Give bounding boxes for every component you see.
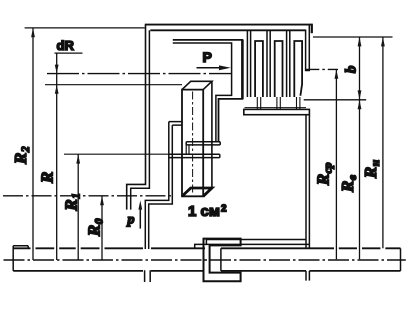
casing left wall outer <box>127 25 146 210</box>
RH dimension line <box>382 37 384 248</box>
rotor blade 1 <box>255 41 263 97</box>
disc right edge inner <box>305 115 307 248</box>
left shaft end cap <box>12 246 14 271</box>
web Z mirror stubs below shaft <box>145 270 151 282</box>
1 cm2 column box: front face <box>182 90 203 197</box>
web ladder rung top (stub) <box>169 122 182 126</box>
casing left wall inner <box>131 30 150 209</box>
rim plate <box>244 109 310 114</box>
right shaft top line <box>221 247 401 249</box>
R dimension line with dR arrows <box>56 53 58 260</box>
b + RB dimension line <box>359 37 361 259</box>
casing right wall inner line <box>305 30 307 70</box>
R1 dimension line <box>77 154 79 260</box>
box right back edge <box>211 81 213 188</box>
svg-text:Rн: Rн <box>361 159 382 179</box>
R0 dimension line <box>101 196 103 260</box>
svg-text:P: P <box>203 49 212 65</box>
R1 reference line <box>64 153 169 155</box>
disc bottom profile inner <box>206 240 306 245</box>
casing right wall bottom cap <box>305 70 310 72</box>
stator fin 3 <box>287 30 290 97</box>
force P arrow <box>197 67 223 69</box>
svg-text:R0: R0 <box>85 218 106 237</box>
inner box (P chamber) inner wall <box>173 43 232 142</box>
svg-text:p: p <box>127 213 135 228</box>
RB reference line <box>304 99 367 101</box>
inner box (P chamber) outer wall <box>173 40 243 142</box>
left shaft collar <box>13 246 28 249</box>
flange bar1 <box>186 142 220 145</box>
sleeve coupling <box>204 239 241 282</box>
web Z profile inner <box>149 125 173 249</box>
disc bottom profile outer <box>195 244 310 248</box>
pressure p arrow <box>139 208 141 229</box>
p level dash-dot line <box>3 195 174 197</box>
casing top right end tab <box>311 24 313 33</box>
axis of rotation (dash-dot) <box>4 259 406 261</box>
svg-text:Rв: Rв <box>338 175 359 193</box>
stator fin 1 <box>247 30 250 97</box>
blade stem 1 <box>257 97 260 109</box>
svg-text:1 см2: 1 см2 <box>188 203 227 220</box>
dR leader shelf <box>55 52 83 54</box>
blade stem 3 <box>297 97 300 109</box>
left shaft top line <box>13 247 205 249</box>
svg-text:R: R <box>38 172 57 184</box>
box center dash-dot axis <box>192 92 194 196</box>
svg-text:Rср: Rср <box>314 162 335 186</box>
disc right edge outer <box>308 115 310 248</box>
box bottom face edges <box>182 188 212 196</box>
web Z profile outer <box>145 122 169 249</box>
svg-text:b: b <box>344 65 360 73</box>
bar1-bar2 connector <box>186 145 189 154</box>
right shaft left end cap <box>220 248 222 271</box>
flange bar2 <box>169 154 220 157</box>
casing top outer line <box>145 24 313 26</box>
blade channel left wall (double) <box>241 40 244 99</box>
R2 dimension line <box>32 28 34 260</box>
disc right edge mirror stubs below shaft <box>306 271 309 281</box>
casing top inner line <box>150 29 306 31</box>
blade stem 2 <box>277 97 280 109</box>
svg-text:R2: R2 <box>11 146 32 165</box>
RH reference line <box>313 36 393 38</box>
stator fin 2 <box>267 30 270 97</box>
Rcp dimension line <box>335 69 337 259</box>
Rcp level dash-dot line <box>305 68 338 70</box>
left shaft bottom line <box>13 270 204 272</box>
rotor blade 2 <box>275 41 283 97</box>
right shaft bottom line <box>221 270 401 272</box>
box top face <box>182 81 212 89</box>
casing right wall outer line <box>308 26 310 71</box>
R2 reference line at casing top <box>25 27 145 29</box>
rotor blade 3 (chamfered) <box>294 41 302 97</box>
svg-text:dR: dR <box>57 38 75 53</box>
dR upper level line (dash-dot) <box>47 73 232 75</box>
blade platform line <box>245 107 307 109</box>
dR lower level line <box>45 84 182 86</box>
right shaft right end cap <box>400 248 402 271</box>
